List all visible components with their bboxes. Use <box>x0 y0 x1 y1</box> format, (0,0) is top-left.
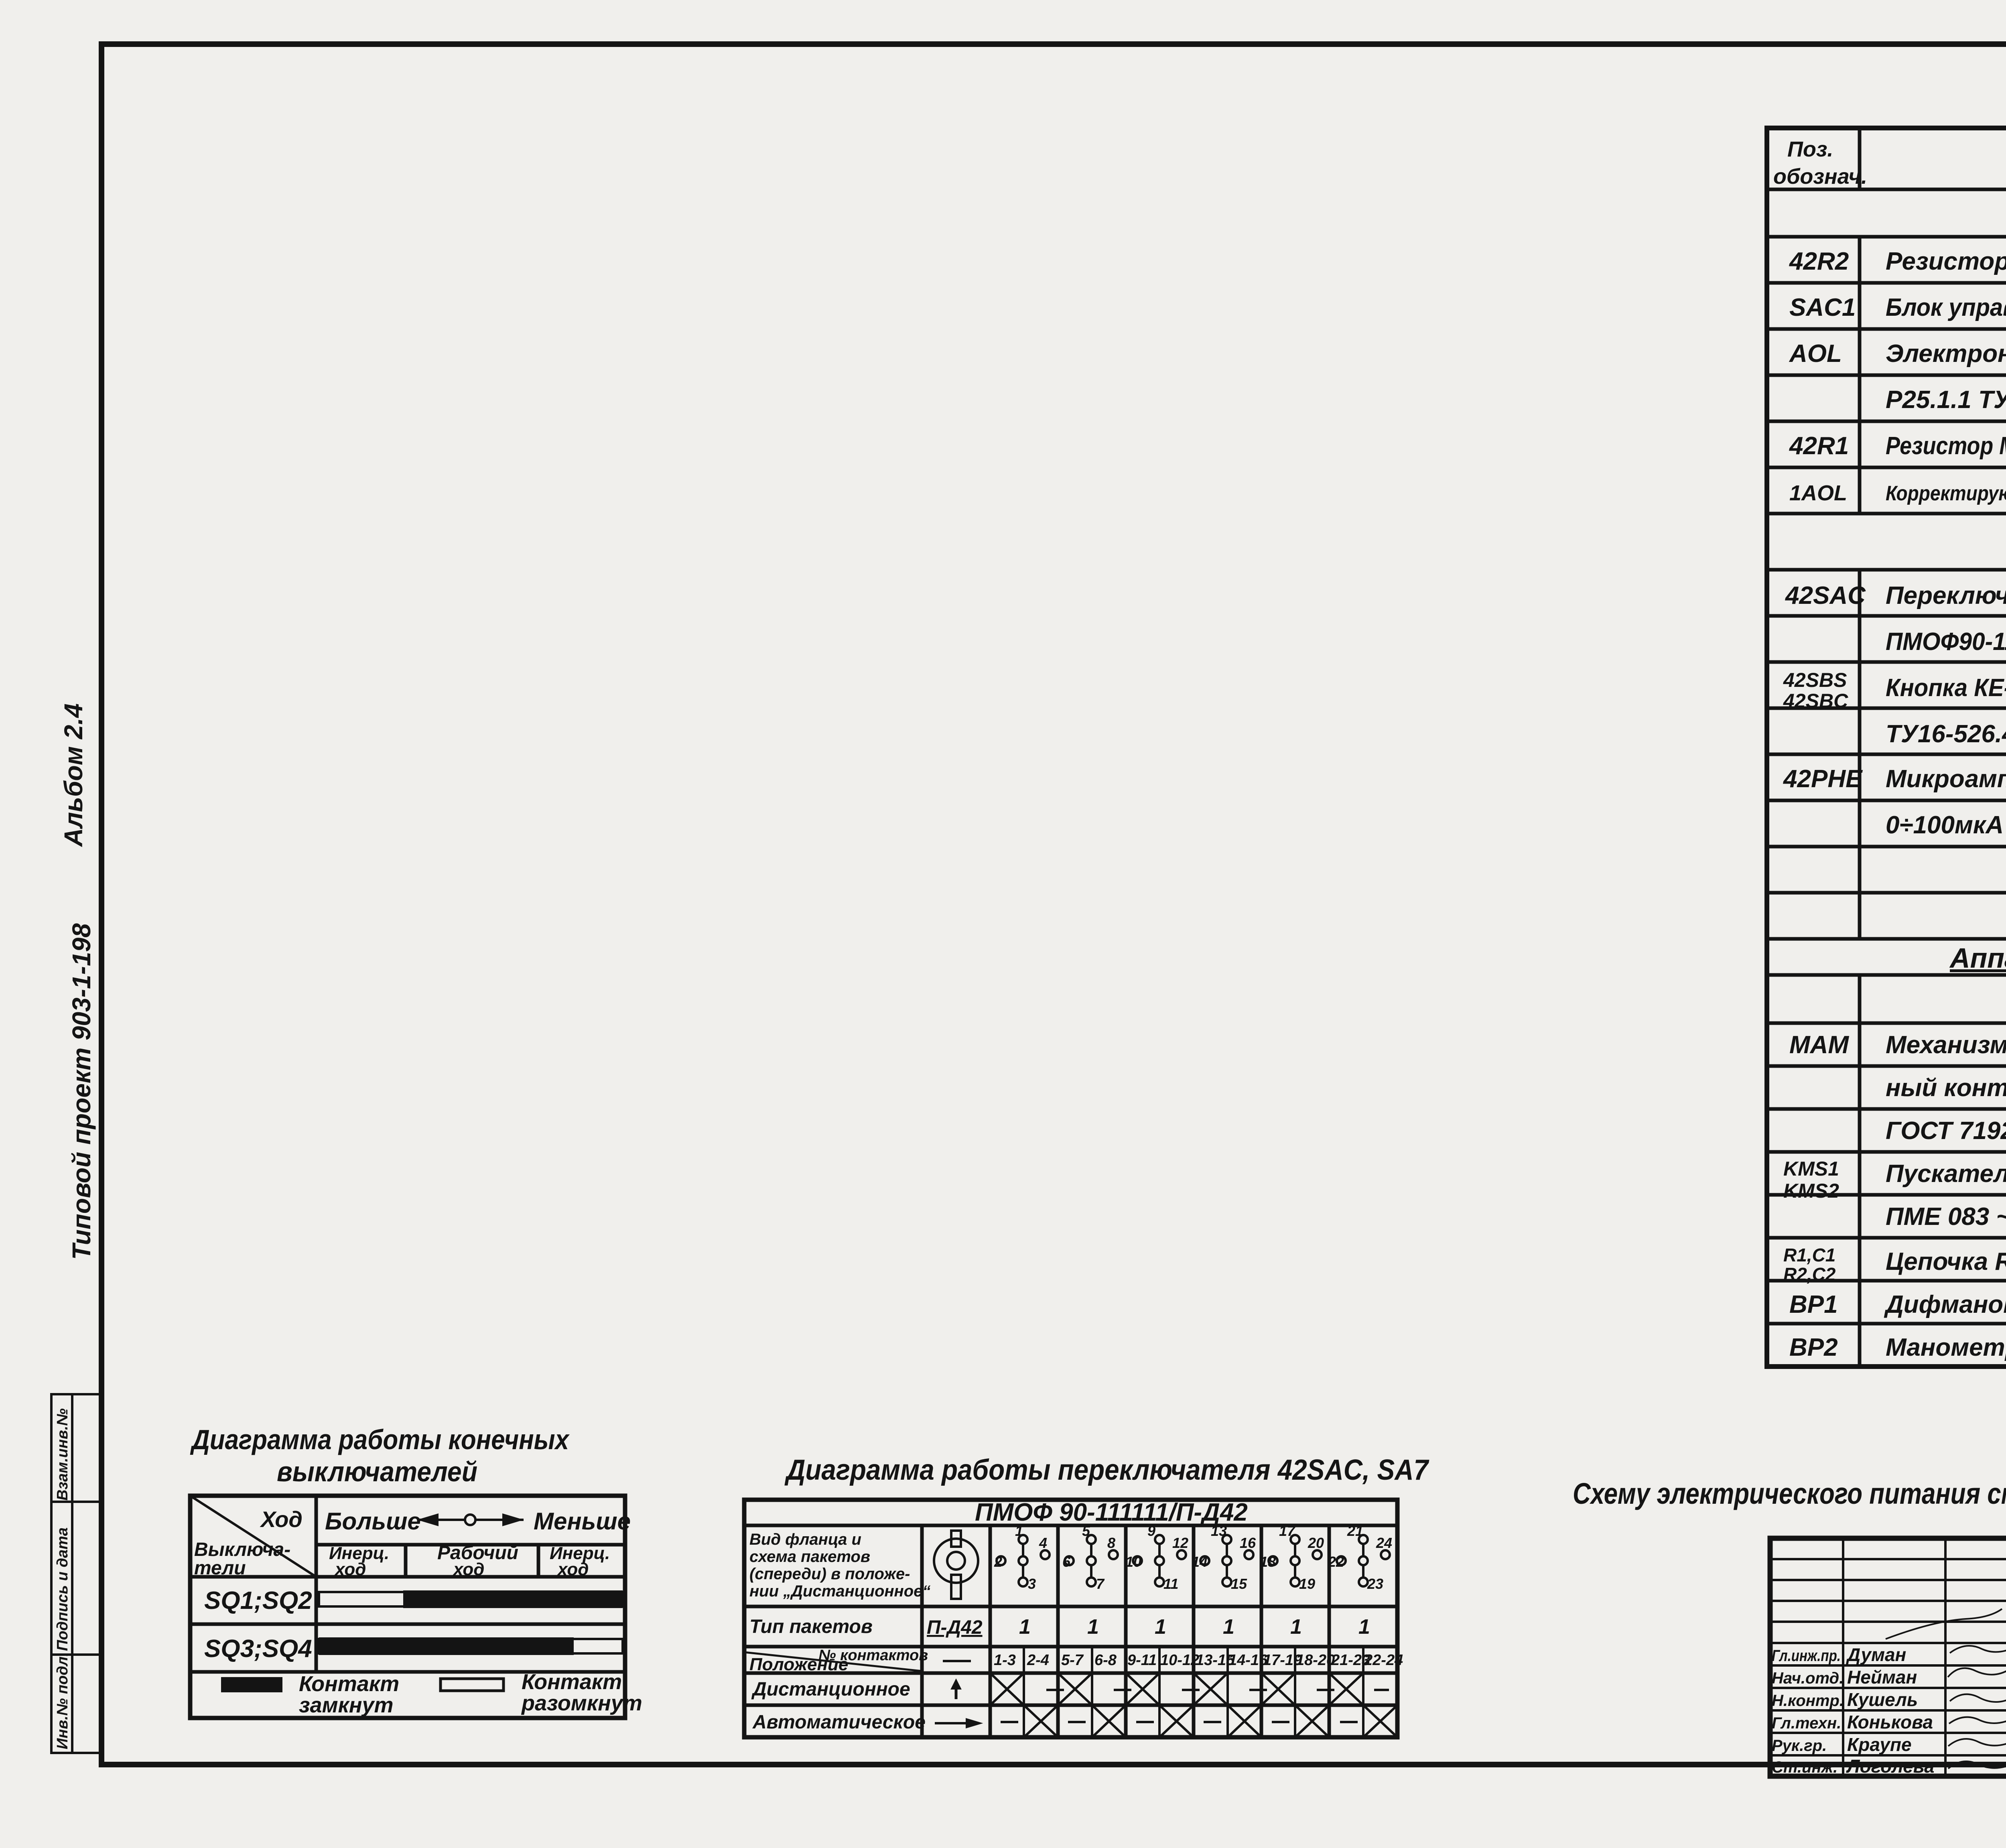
svg-text:Диаграмма работы переключате: Диаграмма работы переключателя 42SAC, SA… <box>784 1454 1429 1486</box>
svg-text:ТУ16-526.407-76: ТУ16-526.407-76 <box>1886 720 2006 748</box>
svg-text:9-11: 9-11 <box>1127 1652 1157 1669</box>
svg-text:17: 17 <box>1279 1523 1296 1539</box>
svg-text:7: 7 <box>1096 1576 1105 1592</box>
svg-text:18: 18 <box>1260 1554 1276 1570</box>
svg-text:42SBC: 42SBC <box>1783 690 1848 712</box>
svg-text:22: 22 <box>1328 1554 1344 1570</box>
svg-text:Гл.техн.: Гл.техн. <box>1772 1714 1841 1732</box>
svg-text:2: 2 <box>994 1554 1002 1570</box>
svg-text:П-Д42: П-Д42 <box>927 1617 983 1638</box>
svg-text:Нач.отд.: Нач.отд. <box>1772 1669 1844 1687</box>
svg-text:Тип пакетов: Тип пакетов <box>749 1616 873 1637</box>
svg-text:22-24: 22-24 <box>1364 1652 1403 1669</box>
svg-text:15: 15 <box>1231 1576 1247 1592</box>
svg-text:18-20: 18-20 <box>1296 1652 1335 1669</box>
svg-text:Резистор МЛТ 2 кОм; 2Вт ГОСТ 7: Резистор МЛТ 2 кОм; 2Вт ГОСТ 7113-77Е <box>1886 432 2006 460</box>
svg-text:1-3: 1-3 <box>994 1652 1016 1669</box>
svg-text:ход: ход <box>334 1560 366 1579</box>
svg-text:Механизм электрический однообо: Механизм электрический однооборот- <box>1886 1031 2006 1059</box>
svg-text:Положение: Положение <box>749 1655 848 1674</box>
svg-text:Дифманометр ДМТУ 25.05.1489-7: Дифманометр ДМТУ 25.05.1489-73 <box>1884 1291 2006 1318</box>
svg-text:Р25.1.1 ТУ 25.02.1948-76: Р25.1.1 ТУ 25.02.1948-76 <box>1886 386 2006 414</box>
svg-text:разомкнут: разомкнут <box>521 1691 642 1715</box>
svg-text:Ход: Ход <box>260 1507 303 1532</box>
svg-text:KMS1: KMS1 <box>1783 1158 1839 1180</box>
svg-text:12: 12 <box>1172 1535 1188 1551</box>
svg-text:Электронный регулирующий при: Электронный регулирующий прибор <box>1886 340 2006 368</box>
svg-text:9: 9 <box>1147 1523 1155 1539</box>
svg-text:Цепочка RC: Цепочка RC <box>1886 1248 2006 1275</box>
svg-text:3: 3 <box>1028 1576 1036 1592</box>
svg-text:AOL: AOL <box>1789 340 1842 368</box>
svg-text:0÷100мкА ТУ25.04-1123-73: 0÷100мкА ТУ25.04-1123-73 <box>1886 811 2006 839</box>
travel arrow symbol <box>417 1515 524 1525</box>
svg-text:Альбом 2.4: Альбом 2.4 <box>59 703 88 847</box>
SQ travel diagram table <box>190 1496 625 1718</box>
svg-text:Пускатель магнитный реверсив: Пускатель магнитный реверсивный <box>1886 1160 2006 1188</box>
svg-text:1AOL: 1AOL <box>1789 481 1847 505</box>
svg-text:20: 20 <box>1308 1535 1324 1551</box>
PMOF contact-pair labels <box>994 1652 1403 1669</box>
svg-text:42R1: 42R1 <box>1789 432 1849 460</box>
svg-text:Ст.инж.: Ст.инж. <box>1772 1759 1837 1776</box>
svg-text:Вид фланца и: Вид фланца и <box>749 1531 861 1548</box>
svg-text:ПМОФ 90-111111/П-Д42: ПМОФ 90-111111/П-Д42 <box>975 1499 1248 1526</box>
svg-text:Гл.инж.пр.: Гл.инж.пр. <box>1772 1647 1841 1665</box>
svg-text:Логолева: Логолева <box>1846 1756 1935 1777</box>
svg-text:нии „Дистанционное“: нии „Дистанционное“ <box>749 1582 930 1600</box>
svg-text:обознач.: обознач. <box>1773 164 1867 189</box>
svg-text:13: 13 <box>1211 1523 1227 1539</box>
svg-text:42PHE: 42PHE <box>1783 765 1863 793</box>
svg-text:Корректирующий прибор К16.1ТУ2: Корректирующий прибор К16.1ТУ25.02.05206… <box>1886 482 2006 505</box>
svg-text:5-7: 5-7 <box>1061 1652 1084 1669</box>
svg-text:42SBS: 42SBS <box>1783 669 1847 691</box>
svg-text:Рук.гр.: Рук.гр. <box>1772 1737 1827 1755</box>
svg-text:Манометр МЭД ТУ25.05.1617-74: Манометр МЭД ТУ25.05.1617-74 <box>1886 1334 2006 1361</box>
svg-text:Автоматическое: Автоматическое <box>752 1712 926 1733</box>
svg-text:BP2: BP2 <box>1789 1334 1838 1361</box>
svg-text:Контакт: Контакт <box>522 1670 622 1694</box>
svg-text:Конькова: Конькова <box>1847 1712 1933 1732</box>
legend <box>221 1677 282 1692</box>
svg-text:Поз.: Поз. <box>1787 137 1833 161</box>
svg-text:10-12: 10-12 <box>1160 1652 1199 1669</box>
svg-text:8: 8 <box>1107 1535 1115 1551</box>
svg-text:Взам.инв.№: Взам.инв.№ <box>54 1408 71 1501</box>
left signature grid <box>1770 1538 2006 1776</box>
svg-text:42SAC: 42SAC <box>1785 582 1866 609</box>
svg-text:KMS2: KMS2 <box>1783 1180 1839 1202</box>
svg-text:Краупе: Краупе <box>1847 1734 1912 1755</box>
svg-text:1: 1 <box>1019 1615 1031 1639</box>
PMOF switch table <box>744 1500 1397 1737</box>
svg-text:2-4: 2-4 <box>1027 1652 1049 1669</box>
svg-text:BP1: BP1 <box>1789 1291 1838 1318</box>
svg-text:Контакт: Контакт <box>299 1672 399 1696</box>
svg-text:42R2: 42R2 <box>1789 248 1849 275</box>
svg-text:Переключатель малогабаритный: Переключатель малогабаритный <box>1886 582 2006 609</box>
SQ1;SQ2 state bar <box>319 1590 623 1608</box>
title block <box>1770 1538 2006 1776</box>
svg-text:1: 1 <box>1290 1615 1302 1639</box>
svg-text:Дистанционное: Дистанционное <box>751 1679 910 1700</box>
svg-text:Нейман: Нейман <box>1847 1667 1917 1688</box>
PMOF package contact numbers <box>994 1523 1392 1592</box>
svg-text:1: 1 <box>1358 1615 1370 1639</box>
svg-text:Инв.№ подл.: Инв.№ подл. <box>54 1652 71 1749</box>
svg-text:ПМОФ90-111111/П-Д42 ТУ16-526.1: ПМОФ90-111111/П-Д42 ТУ16-526.128-75 <box>1886 628 2006 656</box>
svg-text:(спереди) в положе-: (спереди) в положе- <box>749 1565 910 1583</box>
svg-text:23: 23 <box>1367 1576 1383 1592</box>
svg-text:R2,C2: R2,C2 <box>1783 1264 1836 1285</box>
svg-text:4: 4 <box>1039 1535 1047 1551</box>
PMOF half-column dividers <box>1024 1647 1363 1737</box>
svg-text:ПМЕ 083 ~220В ОСТ 16.0536.001: ПМЕ 083 ~220В ОСТ 16.0536.001-72 <box>1886 1203 2006 1231</box>
svg-text:6-8: 6-8 <box>1094 1652 1117 1669</box>
svg-text:21: 21 <box>1347 1523 1363 1539</box>
svg-text:11: 11 <box>1163 1576 1178 1592</box>
svg-text:ход: ход <box>557 1560 589 1579</box>
svg-text:Кнопка КЕ-011УЗ исполнение 2;: Кнопка КЕ-011УЗ исполнение 2; ~500В <box>1886 674 2006 702</box>
svg-text:Блок управления БУ12 ТУ25.02.1: Блок управления БУ12 ТУ25.02.1678-74 <box>1886 294 2006 321</box>
PMOF position symbols <box>935 1661 979 1727</box>
SQ3;SQ4 state bar <box>319 1637 623 1655</box>
svg-text:Аппаратура по месту: Аппаратура по месту <box>1949 942 2006 974</box>
svg-text:1: 1 <box>1087 1615 1099 1639</box>
svg-text:6: 6 <box>1062 1554 1071 1570</box>
svg-text:5: 5 <box>1082 1523 1090 1539</box>
svg-text:ход: ход <box>453 1560 484 1579</box>
svg-text:16: 16 <box>1240 1535 1256 1551</box>
svg-text:Больше: Больше <box>325 1508 421 1535</box>
svg-text:SAC1: SAC1 <box>1789 294 1856 321</box>
switch face symbol <box>934 1531 978 1599</box>
svg-text:Схему электрического питания: Схему электрического питания см. черт. А… <box>1573 1477 2006 1510</box>
svg-text:1: 1 <box>1223 1615 1234 1639</box>
svg-text:выключателей: выключателей <box>277 1456 477 1487</box>
svg-text:Резистор 70 Ом: Резистор 70 Ом <box>1886 248 2006 275</box>
svg-text:ГОСТ 7192-80Е: ГОСТ 7192-80Е <box>1886 1117 2006 1145</box>
svg-text:1: 1 <box>1015 1523 1023 1539</box>
parts list table <box>1767 128 2006 1367</box>
svg-text:10: 10 <box>1125 1554 1141 1570</box>
svg-text:SQ3;SQ4: SQ3;SQ4 <box>204 1635 312 1663</box>
svg-text:Меньше: Меньше <box>534 1508 631 1535</box>
svg-text:МАМ: МАМ <box>1789 1031 1849 1059</box>
svg-text:14: 14 <box>1192 1554 1208 1570</box>
svg-text:Н.контр.: Н.контр. <box>1772 1692 1844 1710</box>
svg-text:Диаграмма работы конечных: Диаграмма работы конечных <box>190 1424 570 1455</box>
svg-text:ный контактный МЭО-250/25-0,: ный контактный МЭО-250/25-0,25Р <box>1886 1074 2006 1102</box>
svg-text:SQ1;SQ2: SQ1;SQ2 <box>204 1587 312 1614</box>
svg-text:Думан: Думан <box>1846 1644 1906 1665</box>
svg-text:тели: тели <box>194 1558 246 1579</box>
svg-text:замкнут: замкнут <box>299 1693 394 1717</box>
signatures squiggles <box>1886 1609 2006 1769</box>
svg-text:19: 19 <box>1299 1576 1315 1592</box>
PMOF package contact diagrams <box>997 1535 1390 1586</box>
svg-text:Подпись и дата: Подпись и дата <box>54 1527 71 1651</box>
PMOF X / dash cells <box>990 1673 1403 1737</box>
svg-text:Микроамперметр М420Б шкала: Микроамперметр М420Б шкала <box>1886 765 2006 793</box>
svg-text:14-16: 14-16 <box>1228 1652 1268 1669</box>
svg-text:схема пакетов: схема пакетов <box>749 1548 870 1566</box>
frame left stamp boxes <box>51 1394 102 1753</box>
svg-text:Кушель: Кушель <box>1847 1689 1918 1710</box>
svg-text:24: 24 <box>1376 1535 1392 1551</box>
svg-text:1: 1 <box>1155 1615 1166 1639</box>
svg-text:R1,C1: R1,C1 <box>1783 1245 1835 1265</box>
svg-text:Типовой проект 903-1-198: Типовой проект 903-1-198 <box>67 923 96 1260</box>
